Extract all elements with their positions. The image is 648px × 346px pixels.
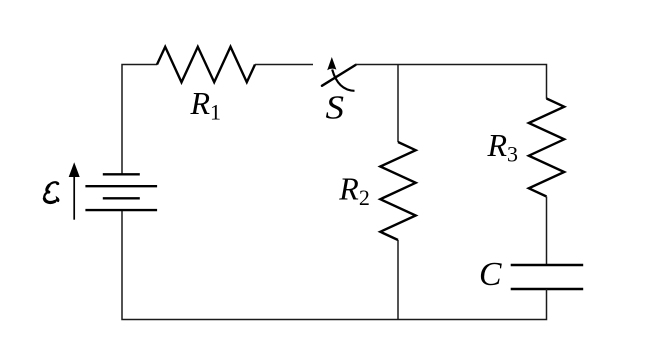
battery EMF source: plate 1 short bbox=[103, 173, 140, 175]
svg-text:R2: R2 bbox=[338, 171, 370, 211]
EMF direction arrow shaft bbox=[73, 172, 75, 220]
switch S blade bbox=[322, 65, 356, 86]
node: top junction of R2 branch bbox=[397, 65, 399, 143]
wire: top-left corner to R1 bbox=[122, 65, 157, 175]
resistor R1 bbox=[157, 47, 255, 82]
resistor R3 bbox=[529, 99, 564, 197]
label EMF script E bbox=[44, 182, 59, 202]
wire: switch to top-right corner bbox=[356, 65, 547, 99]
battery EMF source: plate 2 long bbox=[85, 185, 157, 187]
resistor R2 bbox=[380, 142, 415, 240]
svg-text:C: C bbox=[479, 256, 502, 293]
battery EMF source: plate 4 long bbox=[85, 209, 157, 211]
switch S arrowhead bbox=[327, 57, 336, 70]
svg-text:R1: R1 bbox=[190, 85, 222, 125]
battery EMF source: plate 3 short bbox=[103, 197, 140, 199]
capacitor C bottom plate bbox=[511, 288, 584, 291]
wire: capacitor to bottom-right corner bbox=[398, 289, 547, 320]
wire: R1 to switch S bbox=[255, 64, 313, 66]
wire: R2 to bottom bbox=[397, 240, 399, 320]
EMF direction arrowhead bbox=[69, 162, 80, 177]
switch S closing arrow arc bbox=[332, 70, 354, 91]
capacitor C top plate bbox=[511, 264, 584, 267]
svg-text:R3: R3 bbox=[487, 127, 519, 167]
wire: bottom-left run bbox=[122, 210, 398, 320]
wire: R3 to capacitor C bbox=[546, 197, 548, 266]
svg-text:S: S bbox=[326, 90, 345, 127]
